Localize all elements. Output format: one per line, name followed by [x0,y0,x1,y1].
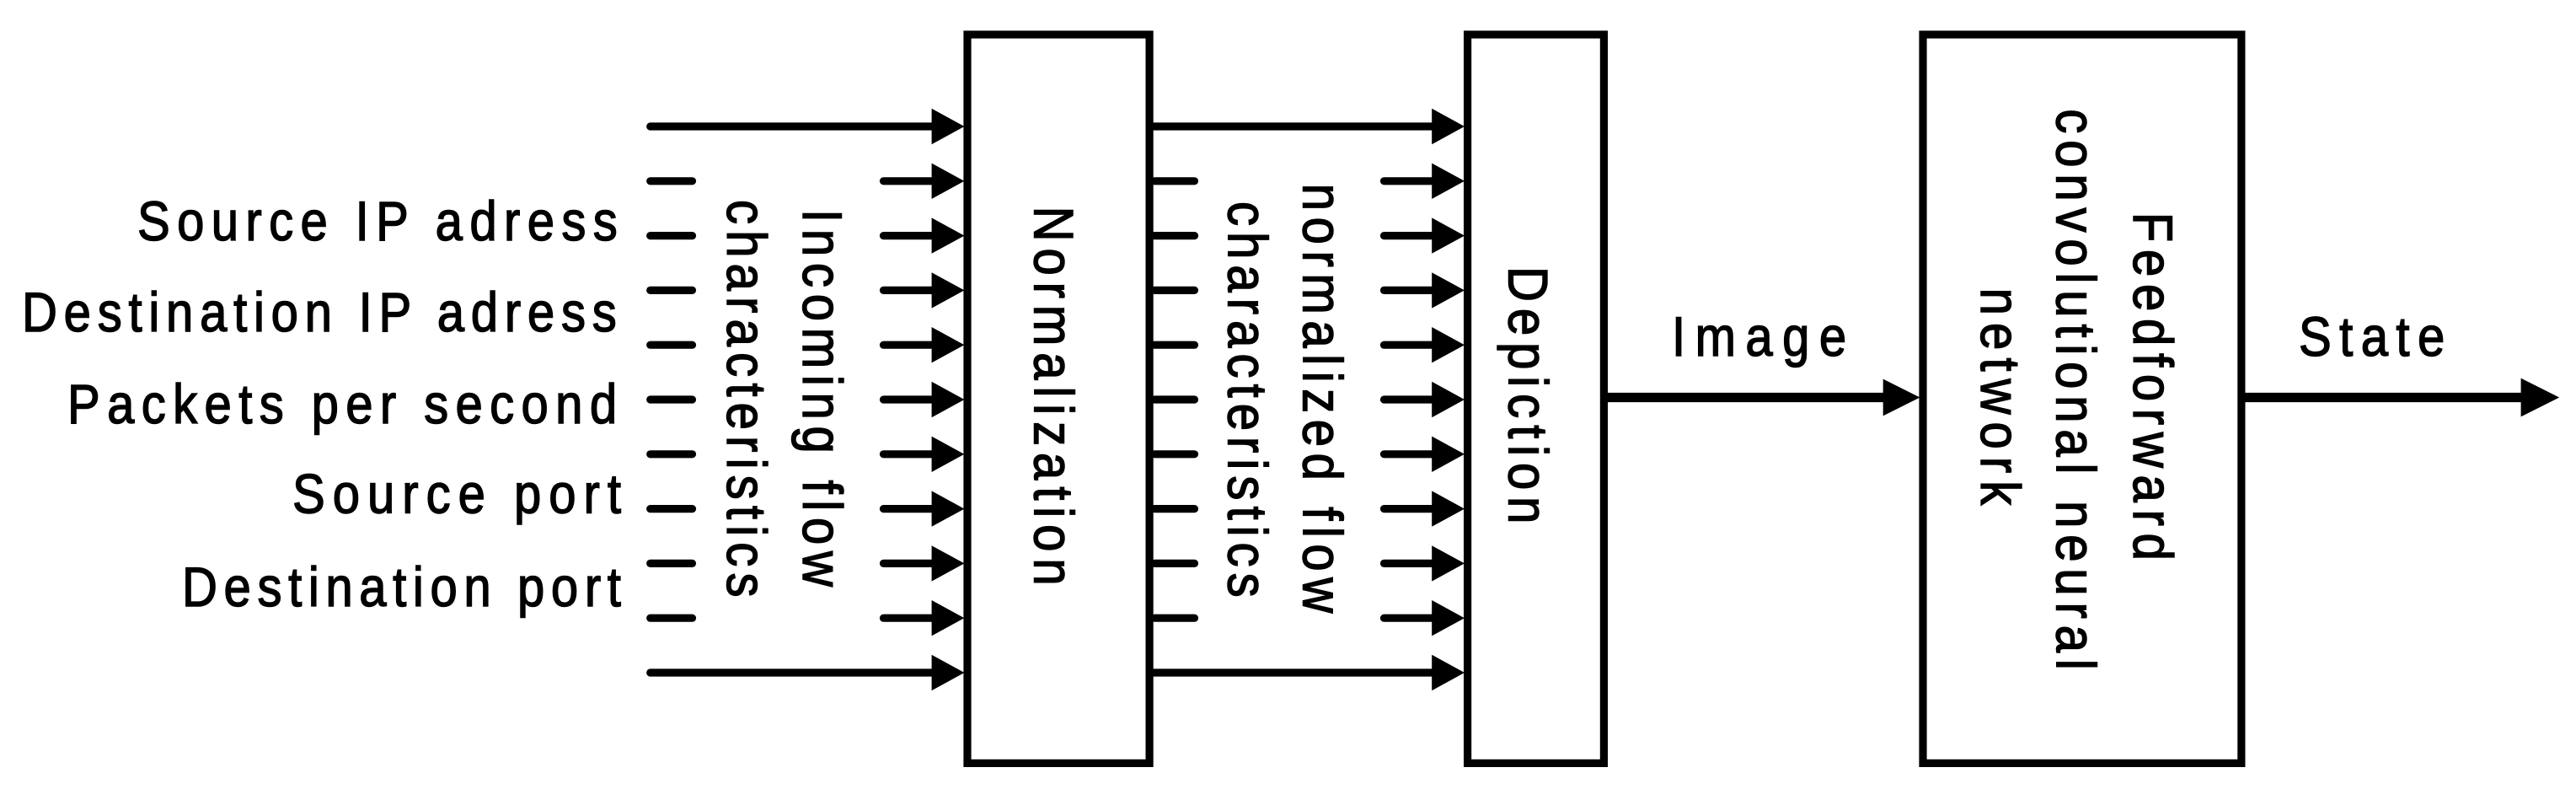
svg-text:convolutional neural: convolutional neural [2044,109,2106,676]
input short arrow row 9 [884,615,933,622]
svg-text:Destination IP adress: Destination IP adress [22,282,624,344]
middle dash row 1 [1154,177,1195,185]
svg-text:characteristics: characteristics [715,200,776,604]
middle short arrow row 5 [1384,395,1433,403]
input dash row 6 [651,450,693,458]
svg-text:Image: Image [1672,307,1856,368]
middle dash row 7 [1154,505,1195,513]
svg-text:normalized flow: normalized flow [1291,184,1352,620]
svg-text:Source port: Source port [292,464,629,525]
middle short arrow row 9 [1384,615,1433,622]
input short arrow row 3 [884,287,933,294]
box: Feedforward convolutional neural network [1923,35,2241,763]
State arrow [2244,393,2523,402]
middle dash row 3 [1154,287,1195,294]
box: Depiction [1468,35,1604,763]
input short arrow row 6 [884,450,933,458]
input dash row 5 [651,395,693,403]
input dash row 8 [651,560,693,567]
middle dash row 9 [1154,615,1195,622]
svg-text:Source IP adress: Source IP adress [137,191,624,253]
input dash row 1 [651,177,693,185]
svg-text:Depiction: Depiction [1497,266,1558,530]
svg-text:State: State [2299,307,2453,368]
middle dash row 2 [1154,232,1195,239]
middle short arrow row 8 [1384,560,1433,567]
input dash row 4 [651,341,693,349]
input short arrow row 5 [884,395,933,403]
middle dash row 6 [1154,450,1195,458]
svg-text:characteristics: characteristics [1216,201,1277,604]
svg-text:network: network [1968,288,2030,513]
svg-text:Incoming flow: Incoming flow [790,209,852,593]
middle short arrow row 7 [1384,505,1433,513]
input short arrow row 1 [884,177,933,185]
input long arrow row 10 [651,668,933,676]
input short arrow row 8 [884,560,933,567]
middle short arrow row 2 [1384,232,1433,239]
middle short arrow row 1 [1384,177,1433,185]
input short arrow row 7 [884,505,933,513]
svg-text:Normalization: Normalization [1022,207,1084,593]
middle short arrow row 3 [1384,287,1433,294]
svg-text:Feedforward: Feedforward [2121,212,2182,568]
Image arrow [1606,393,1884,402]
input dash row 9 [651,615,693,622]
svg-text:Destination port: Destination port [182,557,628,619]
middle long arrow row 0 [1152,122,1433,130]
input short arrow row 4 [884,341,933,349]
box: Normalization [967,35,1149,763]
input short arrow row 2 [884,232,933,239]
svg-text:Packets per second: Packets per second [67,374,624,436]
middle long arrow row 10 [1152,668,1433,676]
input dash row 2 [651,232,693,239]
input long arrow row 0 [651,122,933,130]
input dash row 7 [651,505,693,513]
input dash row 3 [651,287,693,294]
middle dash row 5 [1154,395,1195,403]
middle dash row 4 [1154,341,1195,349]
middle short arrow row 6 [1384,450,1433,458]
middle short arrow row 4 [1384,341,1433,349]
middle dash row 8 [1154,560,1195,567]
